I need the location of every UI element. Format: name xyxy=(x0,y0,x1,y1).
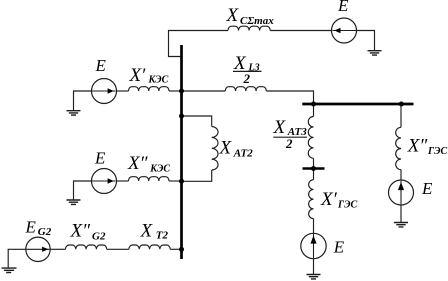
label X'_KES xyxy=(129,65,169,86)
junction node row2 xyxy=(179,89,184,94)
svg-text:X″: X″ xyxy=(127,153,149,174)
label X''_GES xyxy=(407,135,448,157)
svg-text:КЭС: КЭС xyxy=(149,163,170,174)
inductor X_AT3/2 vertical humps right xyxy=(308,117,313,159)
source E row2 (arrow right) xyxy=(92,79,117,104)
inductor X_AT2 vertical humps left xyxy=(212,127,218,170)
svg-text:CΣmax: CΣmax xyxy=(240,15,274,27)
inductor X'_KES xyxy=(129,87,169,91)
inductor X_CSmax xyxy=(228,26,270,30)
wire row5 ground to source EG2 xyxy=(8,249,26,268)
wire row4 ground to source xyxy=(74,181,92,200)
wire XGES1 coil to source E xyxy=(313,219,315,234)
inductor X_T2 xyxy=(129,245,170,249)
svg-text:X: X xyxy=(226,5,240,26)
wire inductor CSmax to source E top xyxy=(270,30,331,32)
source E right (arrow up) xyxy=(389,180,414,205)
ground right xyxy=(394,223,408,227)
svg-text:X: X xyxy=(273,117,287,138)
svg-text:G2: G2 xyxy=(38,226,52,238)
svg-text:X: X xyxy=(140,221,154,242)
inductor X''_G2 xyxy=(66,245,107,249)
label X_AT2 xyxy=(219,138,254,160)
junction node AT2 top xyxy=(179,114,184,119)
label X'_GES xyxy=(320,189,358,211)
inductor X''_GES vertical humps right xyxy=(396,127,401,169)
ground row5 left xyxy=(2,268,17,272)
main vertical bus xyxy=(180,45,183,259)
ground row2 xyxy=(67,111,81,115)
svg-text:E: E xyxy=(421,179,433,198)
label X_T2 xyxy=(140,221,169,242)
svg-text:E: E xyxy=(333,238,345,257)
svg-text:X″: X″ xyxy=(407,135,429,156)
svg-text:G2: G2 xyxy=(92,231,106,243)
svg-text:E: E xyxy=(25,218,37,237)
wire source E right to ground xyxy=(400,205,402,222)
inductor X'_GES vertical humps right xyxy=(309,180,314,219)
wire hbus to XAT3 coil xyxy=(313,105,315,116)
junction node row5 xyxy=(179,247,184,252)
wire row2 source to inductor xyxy=(117,90,129,92)
label X''_G2 xyxy=(70,221,106,243)
inductor X_L3 xyxy=(225,87,266,91)
label X_CSmax xyxy=(226,5,275,27)
label X''_KES xyxy=(127,153,170,174)
wire hbus to XGES2 coil xyxy=(400,105,402,127)
wire row4 source to inductor xyxy=(117,180,129,182)
wire row4 inductor to bus xyxy=(169,180,181,182)
svg-text:X′: X′ xyxy=(320,189,338,210)
svg-text:E: E xyxy=(337,0,349,15)
wire bus to XAT2 coil top xyxy=(183,116,212,127)
source E row4 (arrow right) xyxy=(92,169,117,194)
wire row5 XT2 to bus xyxy=(170,248,180,250)
wire row5 source to XG2 inductor xyxy=(50,248,65,250)
junction node row4 xyxy=(179,179,184,184)
wire XAT2 coil bottom to bus xyxy=(183,170,212,181)
svg-text:X: X xyxy=(219,138,233,159)
junction node tick xyxy=(311,166,316,171)
label X_L3 over 2 xyxy=(233,53,262,86)
horizontal bus right xyxy=(302,103,413,106)
junction node hbus right xyxy=(399,102,404,107)
wire bus to XL3 inductor xyxy=(183,90,226,92)
svg-text:ГЭС: ГЭС xyxy=(337,200,358,211)
node tick xyxy=(303,167,325,169)
wire source E top to ground xyxy=(357,31,375,51)
svg-text:2: 2 xyxy=(285,136,293,151)
label X_AT3 over 2 xyxy=(273,117,308,151)
wire row5 XG2 to XT2 xyxy=(107,248,129,250)
svg-text:E: E xyxy=(94,149,106,168)
wire top branch from bus to CSmax inductor xyxy=(169,31,229,57)
source E_G2 row5 (arrow right) xyxy=(26,237,50,261)
svg-text:X″: X″ xyxy=(70,221,92,242)
svg-text:AT2: AT2 xyxy=(233,148,253,160)
source E middle bottom (arrow up) xyxy=(301,233,326,258)
wire XGES2 coil to source E right xyxy=(400,170,402,180)
svg-text:E: E xyxy=(95,56,107,75)
ground top right xyxy=(368,51,382,55)
ground row4 xyxy=(67,200,81,204)
wire row2 ground to source xyxy=(74,91,92,111)
wire source E to ground middle xyxy=(313,259,315,275)
svg-text:T2: T2 xyxy=(156,230,169,242)
junction node hbus left xyxy=(311,102,316,107)
svg-text:X′: X′ xyxy=(129,65,147,86)
inductor X''_KES xyxy=(129,177,169,181)
wire XL3 inductor to horizontal bus xyxy=(266,91,313,103)
svg-text:ГЭС: ГЭС xyxy=(427,146,448,157)
svg-text:КЭС: КЭС xyxy=(148,75,169,86)
wire XAT3 coil to node tick xyxy=(313,158,315,167)
svg-text:2: 2 xyxy=(243,71,251,86)
wire row2 inductor to bus xyxy=(169,90,181,92)
label E_G2 xyxy=(25,218,52,239)
ground middle bottom xyxy=(307,275,321,279)
wire node tick to XGES1 coil xyxy=(313,170,315,180)
source E top (arrow left) xyxy=(332,18,357,43)
